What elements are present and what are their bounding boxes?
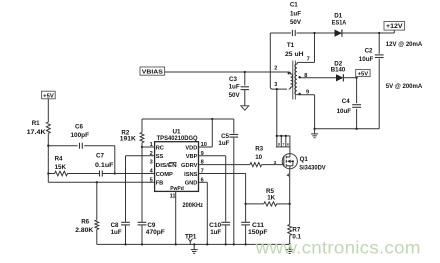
svg-text:R7: R7: [292, 226, 300, 233]
svg-text:1uF: 1uF: [290, 11, 301, 18]
svg-text:2.80K: 2.80K: [75, 227, 94, 234]
svg-text:1K: 1K: [267, 195, 275, 202]
svg-text:6: 6: [287, 143, 289, 147]
svg-text:www.cntronics.com: www.cntronics.com: [255, 238, 421, 258]
svg-text:R1: R1: [32, 120, 40, 127]
svg-text:2: 2: [150, 151, 153, 157]
svg-text:TPS40210DGQ: TPS40210DGQ: [157, 136, 198, 142]
svg-text:8: 8: [304, 73, 307, 79]
svg-text:C1: C1: [290, 1, 298, 8]
svg-text:0.1uF: 0.1uF: [95, 162, 114, 169]
svg-text:150pF: 150pF: [248, 229, 268, 236]
svg-text:PwPd: PwPd: [170, 186, 184, 192]
svg-text:17.4K: 17.4K: [27, 129, 47, 136]
svg-text:C10: C10: [209, 222, 222, 229]
svg-text:C4: C4: [342, 98, 350, 105]
svg-text:100pF: 100pF: [71, 132, 90, 139]
svg-text:DIS/EN: DIS/EN: [156, 163, 177, 169]
svg-text:Q1: Q1: [300, 156, 309, 163]
svg-text:10: 10: [255, 154, 262, 161]
svg-text:1uF: 1uF: [210, 229, 221, 236]
svg-text:COMP: COMP: [156, 172, 173, 178]
svg-text:ISNS: ISNS: [184, 172, 197, 178]
svg-text:C9: C9: [147, 222, 155, 229]
svg-text:VDD: VDD: [185, 145, 197, 151]
svg-text:1uF: 1uF: [218, 140, 229, 147]
svg-text:4: 4: [287, 172, 290, 177]
svg-text:8: 8: [278, 143, 280, 147]
svg-text:C7: C7: [96, 153, 104, 160]
svg-text:200KHz: 200KHz: [183, 202, 204, 209]
svg-text:7: 7: [282, 143, 284, 147]
svg-text:9: 9: [306, 90, 309, 96]
svg-text:U1: U1: [173, 128, 182, 135]
svg-text:T1: T1: [287, 42, 295, 49]
svg-text:3: 3: [274, 160, 277, 165]
svg-text:C11: C11: [252, 222, 265, 229]
svg-text:+5V: +5V: [43, 93, 54, 99]
svg-text:R3: R3: [255, 146, 263, 153]
svg-text:+12V: +12V: [386, 23, 403, 30]
svg-text:C3: C3: [229, 76, 237, 83]
svg-text:11: 11: [170, 194, 176, 200]
svg-text:50V: 50V: [229, 92, 241, 99]
svg-text:15K: 15K: [55, 164, 67, 171]
svg-text:2: 2: [274, 65, 277, 71]
svg-text:FB: FB: [156, 181, 164, 187]
svg-text:12V @ 20mA: 12V @ 20mA: [386, 41, 423, 48]
svg-text:RC: RC: [156, 145, 164, 151]
svg-text:5V @ 200mA: 5V @ 200mA: [386, 83, 423, 90]
svg-text:1uF: 1uF: [111, 229, 122, 236]
svg-text:R4: R4: [55, 156, 63, 163]
svg-text:10uF: 10uF: [337, 108, 352, 115]
svg-text:SS: SS: [156, 154, 164, 160]
svg-text:R6: R6: [81, 219, 89, 226]
svg-text:B140: B140: [331, 67, 346, 74]
svg-text:50V: 50V: [290, 19, 302, 26]
svg-text:TP1: TP1: [185, 233, 197, 240]
svg-text:C6: C6: [75, 124, 83, 131]
svg-text:GND: GND: [185, 181, 198, 187]
svg-text:ES1A: ES1A: [332, 19, 347, 26]
svg-text:5: 5: [150, 177, 153, 183]
svg-text:Si3430DV: Si3430DV: [299, 164, 326, 171]
svg-text:GDRV: GDRV: [181, 163, 198, 169]
svg-text:25 uH: 25 uH: [285, 51, 304, 58]
svg-text:VBIAS: VBIAS: [142, 69, 163, 75]
svg-text:3: 3: [274, 82, 277, 88]
svg-text:470pF: 470pF: [146, 229, 165, 236]
svg-text:10uF: 10uF: [359, 56, 374, 63]
svg-text:C2: C2: [365, 48, 373, 55]
svg-text:VBP: VBP: [186, 154, 198, 160]
svg-text:1uF: 1uF: [229, 84, 240, 91]
svg-text:+5V: +5V: [358, 71, 369, 77]
svg-text:C8: C8: [111, 222, 119, 229]
svg-text:3: 3: [150, 160, 153, 166]
svg-text:191K: 191K: [120, 136, 137, 143]
svg-text:7: 7: [307, 56, 310, 62]
